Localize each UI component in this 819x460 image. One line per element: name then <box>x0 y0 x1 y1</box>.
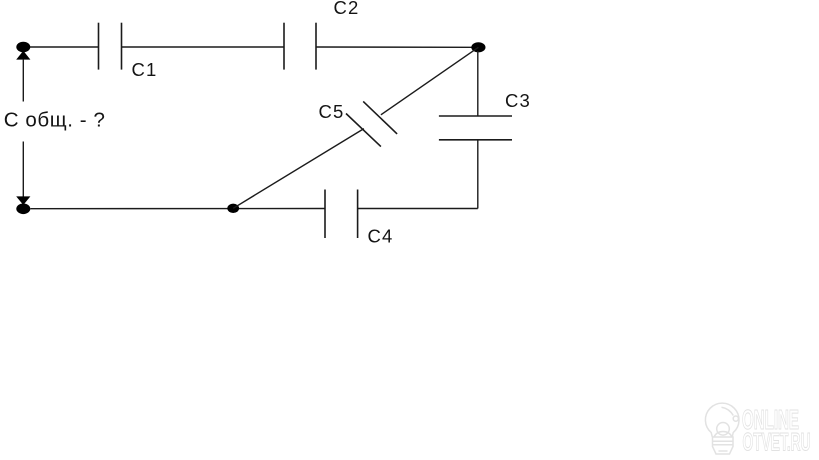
svg-text:C3: C3 <box>505 90 531 111</box>
wire C3 to bottom-right corner <box>477 140 479 209</box>
node B <box>227 204 239 213</box>
svg-text:C1: C1 <box>132 59 158 80</box>
wire top segment 3 <box>316 46 472 48</box>
terminal top-left <box>16 42 30 60</box>
svg-text:С общ. - ?: С общ. - ? <box>4 109 106 132</box>
wire top segment 1 <box>30 46 99 48</box>
node A top-right <box>471 42 485 52</box>
wire bottom segment 1 <box>30 208 325 210</box>
watermark text ONLINE <box>742 404 811 457</box>
terminal bottom-left <box>16 196 30 214</box>
wire bottom segment 2 <box>358 208 478 210</box>
capacitor C4 <box>325 190 358 239</box>
capacitor C5 <box>346 101 397 146</box>
svg-text:C4: C4 <box>368 226 394 247</box>
wire top segment 2 <box>122 46 285 48</box>
wire left vertical lower <box>22 142 24 198</box>
wire left vertical upper <box>22 59 24 102</box>
capacitor C3 <box>439 116 512 140</box>
capacitor C1 <box>99 23 122 70</box>
watermark logo bulb <box>705 403 739 454</box>
wire node A to C3 <box>477 51 479 116</box>
capacitor C2 <box>284 23 316 70</box>
svg-text:C2: C2 <box>334 0 360 18</box>
wire diagonal upper (C5 to node A) <box>381 47 479 115</box>
svg-text:OTVET.RU: OTVET.RU <box>743 429 811 457</box>
wire diagonal lower (node B to C5) <box>233 129 364 209</box>
svg-text:C5: C5 <box>319 101 345 122</box>
